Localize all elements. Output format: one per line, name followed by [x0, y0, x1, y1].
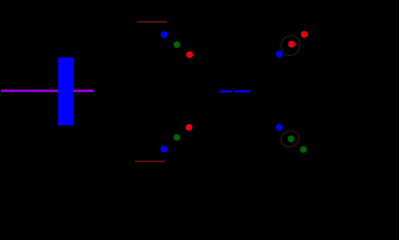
node: electron green (circled), right-bottom chain — [288, 135, 295, 142]
wire: center dashed blue segment, dash 1 — [220, 90, 232, 92]
barrier (blue rectangle) — [58, 58, 73, 126]
node: electron red, right-top chain — [301, 31, 308, 38]
highlight ellipse, bottom-right (dark red) — [279, 129, 301, 150]
node: electron red (circled), right-top chain — [288, 41, 295, 48]
highlight ellipse, top-right (dark green) — [278, 33, 302, 58]
node: electron green, right-bottom chain — [300, 146, 307, 153]
node: electron blue, left-bottom chain — [160, 146, 167, 153]
node: electron green, left-bottom chain — [173, 134, 180, 141]
node: electron blue, right-bottom chain — [276, 124, 283, 131]
node: electron blue, right-top chain — [276, 51, 283, 58]
node: electron blue, left-top chain — [161, 31, 168, 38]
wire: center dashed blue segment, dash 2 — [234, 90, 250, 92]
level line bottom-left (dark red) — [135, 160, 165, 162]
node: electron red, left-top chain — [186, 51, 193, 58]
wire: left lead (purple) — [1, 89, 94, 92]
level line top-left (dark red) — [137, 21, 167, 23]
node: electron green, left-top chain — [174, 41, 181, 48]
node: electron red, left-bottom chain — [186, 124, 193, 131]
